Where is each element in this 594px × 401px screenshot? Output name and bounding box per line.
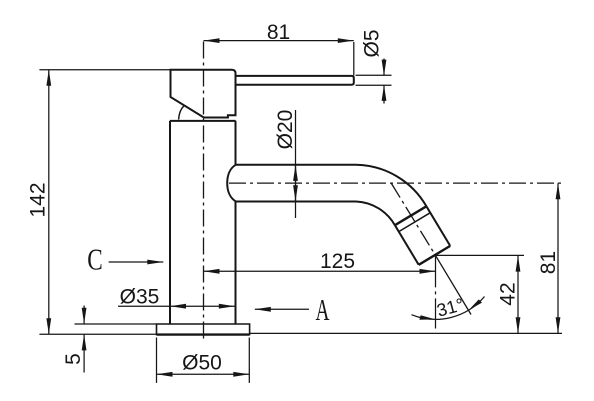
svg-text:Ø5: Ø5 bbox=[361, 29, 384, 57]
nozzle seam line 2 bbox=[399, 213, 431, 232]
bottom datum line right bbox=[250, 332, 562, 334]
spout tip horizontal extension bbox=[436, 254, 525, 256]
spout tip vertical extension bbox=[435, 255, 437, 328]
Ø5 extension lines bbox=[356, 75, 392, 85]
base plate bbox=[157, 324, 250, 334]
spout tube top edge bbox=[236, 164, 356, 166]
spout tube rounded left cap bbox=[227, 165, 236, 202]
body top edge bbox=[170, 120, 236, 122]
svg-text:81: 81 bbox=[537, 251, 560, 274]
31deg arc arrow right bbox=[469, 299, 483, 310]
nozzle outlet face bbox=[419, 246, 451, 265]
A arrow bbox=[255, 308, 309, 310]
body right edge upper bbox=[235, 121, 237, 165]
31deg ray bbox=[436, 255, 472, 314]
nozzle left edge bbox=[395, 225, 419, 265]
svg-text:125: 125 bbox=[320, 250, 355, 273]
dimension 142 line bbox=[48, 70, 50, 334]
handle cap bbox=[171, 70, 236, 118]
5 dim arrow upper bbox=[83, 306, 85, 324]
svg-text:81: 81 bbox=[267, 21, 290, 44]
Ø20 arrows bbox=[295, 165, 297, 201]
5 dim extension line bbox=[75, 323, 157, 325]
spout outer bend arc bbox=[356, 165, 426, 207]
31deg angle arc bbox=[412, 297, 485, 320]
extension line lever end bbox=[353, 42, 355, 76]
base plate bottom thick edge bbox=[157, 333, 250, 335]
dimension 42 line bbox=[517, 256, 519, 334]
svg-text:Ø20: Ø20 bbox=[274, 110, 297, 150]
nozzle right edge bbox=[426, 206, 450, 246]
nozzle seam line 1 bbox=[395, 206, 427, 225]
spout inner bend arc bbox=[356, 202, 395, 226]
lever end edge bbox=[353, 76, 355, 85]
svg-text:Ø50: Ø50 bbox=[182, 352, 222, 375]
Ø20 dimension line bbox=[295, 110, 297, 218]
vertical centerline of body bbox=[203, 42, 205, 340]
spout tube bottom edge bbox=[236, 201, 356, 203]
dimension 81 top line bbox=[204, 40, 354, 42]
Ø35 dimension line tail bbox=[118, 305, 170, 307]
body left edge bbox=[169, 121, 171, 324]
C arrow bbox=[109, 261, 164, 263]
svg-text:A: A bbox=[316, 292, 330, 327]
svg-text:C: C bbox=[87, 242, 103, 277]
nozzle axis centerline bbox=[391, 183, 435, 255]
lever bar bbox=[236, 76, 354, 85]
Ø50 extension lines bbox=[157, 338, 250, 383]
svg-text:42: 42 bbox=[497, 282, 520, 305]
svg-text:5: 5 bbox=[62, 353, 85, 365]
dimension 81 right line bbox=[557, 183, 559, 333]
horizontal centerline of spout bbox=[229, 182, 562, 184]
svg-text:31°: 31° bbox=[435, 294, 466, 320]
dimension 125 line bbox=[204, 270, 436, 272]
body right edge lower bbox=[235, 202, 237, 325]
Ø35 dimension arrows bbox=[170, 305, 235, 307]
bottom datum line bbox=[39, 333, 156, 335]
Ø50 dimension line bbox=[157, 373, 250, 375]
svg-text:Ø35: Ø35 bbox=[120, 286, 160, 309]
top extension line at handle top bbox=[39, 69, 170, 71]
5 dim arrow lower bbox=[83, 334, 85, 372]
Ø5 arrow lower bbox=[383, 85, 385, 104]
svg-text:142: 142 bbox=[27, 182, 50, 217]
Ø5 arrow upper bbox=[383, 59, 385, 76]
handle cap bottom-left arc bbox=[179, 106, 184, 120]
31deg arc arrow left bbox=[419, 315, 435, 319]
